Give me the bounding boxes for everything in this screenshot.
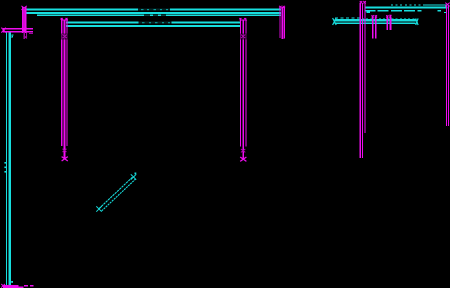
dim marks under crossing (24, 34, 34, 39)
faint specks in label zone (141, 9, 170, 23)
pin X at V3 bottom (240, 157, 246, 161)
wire L4 lower bus edge (66, 21, 241, 23)
tick near W4 (367, 11, 371, 13)
wire L5 lower bus edge (66, 25, 241, 27)
wire top-right dashed then solid edge (391, 4, 448, 6)
wire V7 magenta vertical shorter (387, 17, 390, 31)
dim via on V2 mid (63, 35, 67, 39)
wire V6 magenta vertical short (373, 17, 376, 39)
via X at V1 H1 crossing (22, 28, 28, 33)
via X at V5 top (360, 1, 366, 3)
dim segment on V2 mid (61, 34, 69, 40)
wire H2 magenta bottom horizontal (3, 286, 34, 288)
dot at bottom left (11, 281, 13, 283)
wire diagonal switch element (99, 177, 135, 211)
label F tick on left rail top (12, 35, 14, 39)
wire dashed stub left of W3 (335, 17, 416, 19)
wire V3 magenta vertical (240, 20, 246, 159)
wire V2 magenta vertical (62, 20, 68, 159)
wire L2 top bus edge (26, 12, 281, 14)
dim segment on V3 mid (239, 34, 247, 40)
wire L1 top bus edge (26, 8, 281, 10)
via X at V7 top (386, 15, 391, 17)
via X at V4 top (279, 6, 285, 8)
via X at V8 top (445, 3, 449, 7)
wire W4 top-right horizontal (365, 7, 448, 12)
wire V8 magenta vertical right edge (446, 5, 448, 126)
via cap at V2 top (61, 18, 68, 20)
pin X at V2 bottom (62, 157, 68, 161)
wire H1 magenta horizontal top-left (3, 29, 33, 32)
wire V1 dim lower stub (24, 33, 26, 39)
wire left rail vertical (7, 31, 10, 286)
contact X at W3 right end (416, 18, 418, 25)
wire V5 magenta vertical tall (360, 3, 365, 158)
via X at V1 top (21, 6, 26, 10)
label dots on left rail (4, 162, 6, 173)
wire V1 magenta vertical top-left (23, 7, 26, 33)
via X at H2 left end (1, 284, 5, 288)
contact X at W3 left end (333, 18, 337, 25)
dim via on V3 mid (241, 35, 245, 39)
contact X at diagonal lower end (96, 206, 101, 211)
via cap at V3 top (239, 18, 246, 20)
dark net label text over top bus (138, 8, 171, 24)
wire W3 right horizontal (335, 20, 417, 23)
dim via on V2 lower (63, 149, 67, 152)
via X at V6 top (372, 15, 378, 17)
contact X at diagonal upper end (131, 174, 136, 179)
dim via on V3 at 150 (241, 149, 245, 152)
via X at H1 left end (1, 28, 5, 33)
wire V4 magenta vertical short (280, 7, 285, 39)
dot above diagonal end (135, 173, 137, 175)
wire L3 mid bus edge (37, 14, 281, 16)
